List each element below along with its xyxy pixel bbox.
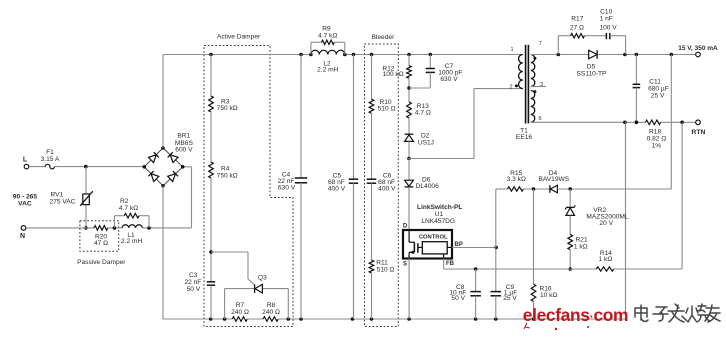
svg-text:275 VAC: 275 VAC — [50, 198, 76, 205]
svg-text:R7: R7 — [236, 302, 245, 309]
svg-text:600 V: 600 V — [175, 147, 193, 154]
svg-text:elecfans·com: elecfans·com — [523, 305, 628, 325]
svg-text:90 - 265: 90 - 265 — [13, 193, 38, 200]
svg-text:DL4006: DL4006 — [416, 183, 439, 190]
svg-text:1 nF: 1 nF — [600, 16, 613, 23]
svg-text:BAV19WS: BAV19WS — [538, 176, 569, 183]
svg-text:3.15 A: 3.15 A — [41, 156, 60, 163]
svg-text:VAC: VAC — [18, 200, 32, 207]
svg-text:1 kΩ: 1 kΩ — [599, 256, 613, 263]
svg-text:7: 7 — [539, 41, 542, 47]
svg-text:630 V: 630 V — [278, 185, 296, 192]
svg-text:Active Damper: Active Damper — [217, 34, 261, 41]
svg-text:240 Ω: 240 Ω — [262, 309, 280, 316]
svg-text:25 V: 25 V — [651, 93, 665, 100]
svg-text:Bleeder: Bleeder — [372, 34, 396, 41]
svg-text:R8: R8 — [267, 302, 276, 309]
svg-text:240 Ω: 240 Ω — [231, 309, 249, 316]
svg-text:3: 3 — [540, 82, 543, 88]
svg-text:LinkSwitch-PL: LinkSwitch-PL — [417, 204, 462, 211]
svg-text:3.3 kΩ: 3.3 kΩ — [507, 176, 526, 183]
svg-text:1 kΩ: 1 kΩ — [574, 244, 588, 251]
svg-text:2.2 mH: 2.2 mH — [317, 67, 338, 74]
svg-text:BR1: BR1 — [177, 132, 190, 139]
svg-text:400 V: 400 V — [328, 185, 346, 192]
svg-text:D2: D2 — [421, 133, 430, 140]
svg-text:510 Ω: 510 Ω — [377, 267, 395, 274]
svg-text:50 V: 50 V — [187, 286, 201, 293]
svg-text:0.82 Ω: 0.82 Ω — [647, 136, 667, 143]
svg-text:4.7 kΩ: 4.7 kΩ — [119, 205, 138, 212]
svg-text:R17: R17 — [571, 15, 583, 22]
svg-text:L: L — [23, 156, 28, 163]
svg-text:50 V: 50 V — [451, 295, 465, 302]
svg-text:20 V: 20 V — [599, 220, 613, 227]
svg-text:S: S — [403, 261, 407, 267]
svg-text:U1: U1 — [435, 211, 444, 218]
svg-text:CONTROL: CONTROL — [419, 234, 448, 240]
svg-text:6: 6 — [538, 116, 541, 122]
svg-text:750 kΩ: 750 kΩ — [217, 172, 238, 179]
svg-text:400 V: 400 V — [378, 185, 396, 192]
svg-text:1%: 1% — [652, 143, 662, 150]
svg-text:C10: C10 — [600, 8, 612, 15]
svg-text:Q3: Q3 — [258, 274, 267, 281]
svg-text:10 kΩ: 10 kΩ — [540, 292, 557, 299]
svg-text:SS110-TP: SS110-TP — [577, 70, 608, 77]
svg-text:100 kΩ: 100 kΩ — [383, 71, 404, 78]
svg-text:C11: C11 — [649, 78, 661, 85]
svg-text:Passive Damper: Passive Damper — [77, 259, 126, 266]
svg-text:750 kΩ: 750 kΩ — [217, 105, 238, 112]
svg-text:100 V: 100 V — [599, 25, 617, 32]
svg-text:FB: FB — [446, 261, 455, 267]
svg-text:47 Ω: 47 Ω — [94, 240, 108, 247]
svg-text:LNK457DG: LNK457DG — [421, 218, 455, 225]
svg-text:25 V: 25 V — [503, 295, 517, 302]
svg-text:15 V, 350 mA: 15 V, 350 mA — [678, 45, 718, 52]
svg-text:US1J: US1J — [418, 140, 434, 147]
svg-text:630 V: 630 V — [440, 76, 458, 83]
svg-text:BP: BP — [455, 242, 463, 248]
svg-text:27 Ω: 27 Ω — [570, 25, 584, 32]
svg-text:1: 1 — [510, 47, 513, 53]
svg-text:4.7 Ω: 4.7 Ω — [415, 110, 431, 117]
svg-text:R11: R11 — [376, 259, 388, 266]
svg-text:2: 2 — [509, 84, 512, 90]
svg-text:R18: R18 — [649, 129, 661, 136]
svg-text:680 µF: 680 µF — [648, 86, 669, 93]
svg-text:R2: R2 — [120, 198, 129, 205]
svg-text:RTN: RTN — [691, 129, 705, 136]
svg-text:2.2 mH: 2.2 mH — [121, 238, 142, 245]
svg-text:4.7 kΩ: 4.7 kΩ — [318, 32, 337, 39]
svg-text:N: N — [20, 233, 25, 240]
svg-text:EE16: EE16 — [516, 134, 532, 141]
svg-text:D: D — [403, 223, 408, 229]
svg-text:510 Ω: 510 Ω — [378, 106, 396, 113]
